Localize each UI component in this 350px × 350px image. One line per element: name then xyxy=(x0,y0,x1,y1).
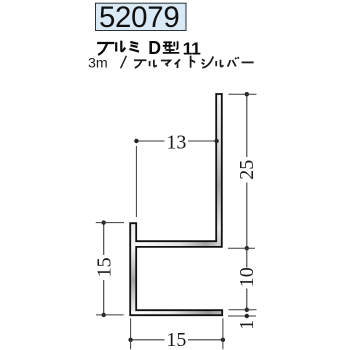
dim 15 left line xyxy=(103,223,105,315)
svg-text:1: 1 xyxy=(191,39,201,59)
title line 2: katakana ル xyxy=(150,60,157,67)
dim 15 bottom dots xyxy=(128,338,132,342)
title line 1: kanji 型 xyxy=(163,41,180,53)
profile bottom flange shading xyxy=(131,311,222,315)
svg-text:D: D xyxy=(148,38,161,58)
profile mid flange shading xyxy=(136,242,221,246)
dim 25 extension top xyxy=(229,93,257,95)
svg-text:10: 10 xyxy=(236,267,258,287)
svg-text:15: 15 xyxy=(166,329,186,350)
svg-text:1: 1 xyxy=(236,320,258,330)
title line 2: katakana マ xyxy=(161,61,170,67)
title line 2: katakana ル (2nd) xyxy=(216,60,223,67)
dim 13 extension line xyxy=(135,146,137,217)
profile body fill (aluminum cross-section) xyxy=(130,94,222,315)
dim 15 bottom line xyxy=(131,339,223,341)
svg-text:52079: 52079 xyxy=(99,1,179,34)
dim 10 dot xyxy=(245,308,249,312)
dim 1 bottom dot xyxy=(245,314,249,318)
dim 15 bottom extension left xyxy=(130,318,132,349)
title line 2: katakana ア xyxy=(134,60,147,68)
profile outline xyxy=(130,94,222,315)
dim 13 dots xyxy=(134,139,138,143)
title line 2: katakana バ xyxy=(228,57,239,67)
dim 25 dots xyxy=(245,92,249,96)
dim 13 line xyxy=(136,140,216,142)
profile left strip shading xyxy=(131,224,136,315)
dim 15 left extension top xyxy=(96,222,124,224)
svg-text:13: 13 xyxy=(166,132,186,154)
title line 2: katakana イ xyxy=(175,59,180,68)
svg-text:25: 25 xyxy=(236,160,258,180)
title line 1: katakana ア xyxy=(97,43,114,55)
dim 15 left dots xyxy=(102,220,106,224)
svg-text:3m: 3m xyxy=(88,56,108,72)
title line 2: katakana ト xyxy=(191,56,196,68)
title line 2: katakana ー xyxy=(242,61,254,63)
title line 2: slash xyxy=(121,56,127,69)
title line 1: katakana ル xyxy=(116,41,125,52)
dim 1 top line xyxy=(229,309,257,311)
dim 25 extension mid xyxy=(228,247,255,249)
dim 15 left extension bottom xyxy=(96,314,124,316)
dim 1 bottom line xyxy=(228,315,256,317)
dim 25 line xyxy=(246,94,248,248)
title line 1: katakana ミ xyxy=(130,42,140,52)
dim 10 line xyxy=(246,248,248,310)
part number box xyxy=(96,3,187,30)
dim 15 bottom extension right xyxy=(222,318,224,349)
profile web shading xyxy=(217,95,221,247)
title line 2: katakana シ xyxy=(202,56,214,67)
svg-text:15: 15 xyxy=(93,257,115,277)
